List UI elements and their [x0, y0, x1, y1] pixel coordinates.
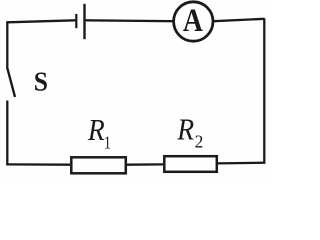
wire: ammeter to top-right corner	[214, 19, 265, 21]
wire: bottom-right corner to R2	[217, 162, 266, 165]
svg-text:S: S	[34, 66, 48, 97]
svg-text:R: R	[176, 113, 194, 147]
wire: top-left corner to battery	[7, 20, 75, 22]
wire: right side	[263, 18, 265, 163]
wire: battery to ammeter	[86, 19, 174, 22]
switch S (open blade)	[7, 68, 15, 97]
ammeter A	[174, 2, 213, 41]
wire: left side lower segment (switch to bottom corner)	[6, 101, 8, 166]
label R1	[87, 114, 111, 153]
wire: left side upper segment (top corner to switch pivot)	[6, 21, 8, 69]
svg-text:R: R	[87, 114, 105, 148]
svg-text:1: 1	[104, 134, 111, 153]
resistor R1	[71, 157, 126, 173]
wire: R1 to bottom-left corner	[7, 163, 70, 166]
battery cell	[76, 4, 84, 39]
svg-text:2: 2	[195, 131, 204, 151]
resistor R2	[164, 156, 217, 172]
svg-text:A: A	[183, 2, 203, 39]
label R2	[176, 113, 203, 151]
wire: R2 to R1	[127, 163, 163, 166]
